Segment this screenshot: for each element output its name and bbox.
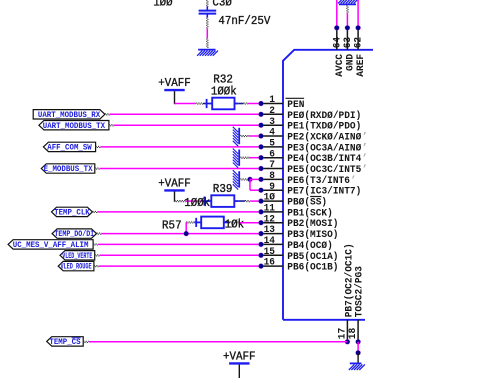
overline SS [310, 196, 321, 198]
svg-text:62: 62 [353, 37, 365, 48]
junction node pin 8 branch [247, 177, 253, 183]
wire to pin 9 [250, 189, 259, 191]
wire to pin 1 [248, 103, 259, 105]
junction pin 12 [258, 220, 264, 226]
wire [97, 211, 258, 213]
junction pin 62 [355, 25, 361, 31]
+VAFF power symbol (bottom) [229, 362, 249, 364]
svg-text:’: ’ [362, 164, 368, 176]
wire gnd pin 4 [240, 136, 249, 137]
wire dark segment [244, 103, 248, 104]
pin 10 stub [261, 200, 283, 202]
svg-text:1ØØk: 1ØØk [211, 84, 237, 98]
pin 11 stub [261, 211, 283, 213]
pin 14 stub [261, 243, 283, 245]
junction pin 17 [345, 339, 351, 345]
svg-text:47nF/25V: 47nF/25V [218, 14, 271, 28]
wire R57 down to TEMP_DO/DI net [185, 222, 187, 233]
net label TEMP_CLK [52, 207, 93, 217]
wire [100, 254, 259, 256]
wire TEMP_CS to pin 17 [89, 341, 348, 343]
pin 4 stub [261, 135, 283, 137]
wire to pin 63 [346, 13, 348, 25]
wire dark segment [196, 103, 203, 104]
wire dark tail [96, 146, 101, 147]
svg-text:+VAFF: +VAFF [158, 176, 191, 190]
svg-text:1ØØ: 1ØØ [153, 0, 173, 10]
bottom pin 17 stub [346, 320, 348, 342]
junction pin 64 [334, 25, 340, 31]
wire net to pin 64 [336, 0, 338, 26]
junction pin 1 [258, 101, 264, 107]
wire to pin 8 [250, 178, 259, 180]
resistor R57 body [201, 217, 224, 229]
junction pin 3 [258, 122, 264, 128]
svg-text:+VAFF: +VAFF [158, 76, 191, 90]
wire +VAFF down [174, 192, 176, 202]
wire [98, 243, 259, 245]
svg-text:VLED_VERTE: VLED_VERTE [62, 252, 92, 261]
net label AFF_COM_SW [43, 142, 95, 152]
junction pin 18 [355, 339, 361, 345]
pin 3 stub [261, 124, 283, 126]
wire +VAFF down [174, 91, 176, 104]
ground at pin 4 [233, 127, 239, 146]
svg-text:C3Ø: C3Ø [212, 0, 232, 10]
top pin 63 GND stub [346, 28, 348, 50]
resistor R57 right lead [224, 221, 230, 223]
svg-text:R39: R39 [213, 182, 233, 196]
pin 5 stub [261, 146, 283, 148]
overline CS [72, 337, 81, 339]
junction pin 14 [258, 242, 264, 248]
junction pin 10 [258, 198, 264, 204]
+VAFF power symbol (R32) [164, 89, 184, 91]
svg-text:UART_MODBUS_RX: UART_MODBUS_RX [38, 111, 100, 120]
wire dark tail [95, 255, 100, 256]
pin 8 stub [261, 178, 283, 180]
pin 15 stub [261, 254, 283, 256]
capacitor C30 [199, 6, 217, 17]
svg-text:TEMP_CS: TEMP_CS [49, 338, 80, 347]
wire dark tail [97, 233, 102, 234]
svg-text:UC_MES_V_AFF_ALIM: UC_MES_V_AFF_ALIM [13, 241, 89, 250]
svg-text:R57: R57 [162, 218, 182, 232]
pin 6 stub [261, 157, 283, 159]
wire [101, 146, 259, 148]
+VAFF power symbol (R39) [164, 189, 184, 191]
junction pin 9 [258, 187, 264, 193]
net label UART_MODBUS_RX [33, 110, 105, 120]
svg-text:16: 16 [264, 257, 275, 269]
wire [114, 124, 259, 126]
wire dark tail [83, 341, 89, 342]
svg-text:E_MODBUS_TX: E_MODBUS_TX [44, 165, 93, 174]
wire +VAFF down (clipped) [238, 365, 240, 378]
svg-text:TOSC2/PG3: TOSC2/PG3 [354, 266, 366, 317]
top pin 64 AVCC stub [336, 28, 338, 50]
junction pin 4 [258, 133, 264, 139]
ground at pin 8 [233, 170, 239, 189]
wire dark segment [175, 201, 187, 202]
top pin 62 AREF stub [357, 28, 359, 50]
wire to pin 10 [250, 200, 259, 202]
wire dark tail [94, 266, 99, 267]
pin 1 stub [261, 103, 283, 105]
wire gnd pin 6 [240, 157, 249, 158]
svg-text:TEMP_CLK: TEMP_CLK [54, 209, 90, 218]
net label VLED_ROUGE [58, 261, 94, 271]
wire dark segment [230, 222, 240, 223]
ground at pin 6 [233, 149, 239, 168]
svg-text:PB6(OC1B): PB6(OC1B) [287, 262, 338, 274]
resistor R32 right lead [235, 103, 239, 105]
resistor R57 left lead [194, 218, 201, 227]
wire to ground [207, 38, 208, 48]
svg-text:VLED_ROUGE: VLED_ROUGE [60, 263, 91, 272]
pin 12 stub [261, 222, 283, 224]
ground below pin 18 [349, 363, 365, 370]
ground above pin 63 [338, 0, 357, 4]
svg-text:+VAFF: +VAFF [223, 349, 256, 363]
net label VLED_VERTE [60, 251, 95, 261]
wire [175, 103, 197, 105]
wire above C30 [207, 0, 208, 7]
wire dark tail [93, 244, 98, 245]
wire net to pin 62 [357, 0, 359, 26]
junction pin 13 [258, 231, 264, 237]
pin 16 stub [261, 265, 283, 267]
svg-text:1Øk: 1Øk [225, 217, 245, 231]
wire to ground [357, 353, 359, 363]
wire [206, 29, 208, 39]
junction pin 63 [345, 25, 351, 31]
wire dark tail [109, 125, 114, 126]
resistor R32 left lead [203, 99, 212, 108]
wire [99, 265, 259, 267]
svg-text:TEMP_DO/DI: TEMP_DO/DI [54, 230, 94, 239]
svg-text:18: 18 [347, 328, 359, 339]
svg-text:AREF: AREF [355, 54, 367, 77]
pin 9 stub [261, 189, 283, 191]
net label E_MODBUS_TX [41, 164, 95, 174]
net label TEMP_DO/DI [52, 229, 96, 239]
wire dark tail [95, 168, 100, 169]
junction R57 / TEMP_DO_DI [183, 231, 189, 237]
overline PEN [286, 97, 305, 99]
wire [249, 135, 259, 137]
junction pin 18 lower [355, 350, 361, 356]
junction pin 8 [258, 177, 264, 183]
IC body outline (microcontroller) [283, 50, 373, 320]
junction pin 15 [258, 253, 264, 259]
net label TEMP_CS [47, 337, 83, 347]
resistor R39 right lead [234, 200, 239, 202]
wire dark tail [92, 211, 97, 212]
net label UART_MODBUS_TX [39, 121, 109, 131]
svg-text:UART_MODBUS_TX: UART_MODBUS_TX [43, 122, 105, 131]
wire gnd segment [347, 5, 348, 13]
junction pin 6 [258, 155, 264, 161]
wire [102, 233, 259, 235]
junction pin 5 [258, 144, 264, 150]
wire to pin 12 [240, 222, 259, 224]
svg-text:AFF_COM_SW: AFF_COM_SW [47, 143, 92, 152]
wire dark segment [186, 222, 194, 223]
svg-text:1ØØk: 1ØØk [184, 196, 210, 210]
wire dark segment [245, 201, 250, 202]
wire [100, 168, 259, 170]
junction pin 16 [258, 263, 264, 269]
bottom pin 18 stub [357, 320, 359, 342]
pin 13 stub [261, 233, 283, 235]
resistor R32 body [212, 98, 234, 110]
net label UC_MES_V_AFF_ALIM [8, 240, 93, 250]
junction pin 7 [258, 166, 264, 172]
ground below C30 [197, 50, 218, 56]
junction pin 2 [258, 112, 264, 118]
wire dark tail [105, 114, 110, 115]
pin 2 stub [261, 113, 283, 115]
resistor R39 body [211, 195, 234, 207]
wire gnd pin 8 [240, 179, 247, 180]
wire pin 18 down [357, 342, 359, 353]
wire [186, 200, 202, 202]
resistor R39 left lead [202, 197, 211, 206]
wire branch down [249, 179, 251, 190]
junction pin 11 [258, 209, 264, 215]
wire [110, 113, 259, 115]
wire [249, 157, 259, 159]
wire C30 to net [207, 18, 208, 29]
pin 7 stub [261, 168, 283, 170]
